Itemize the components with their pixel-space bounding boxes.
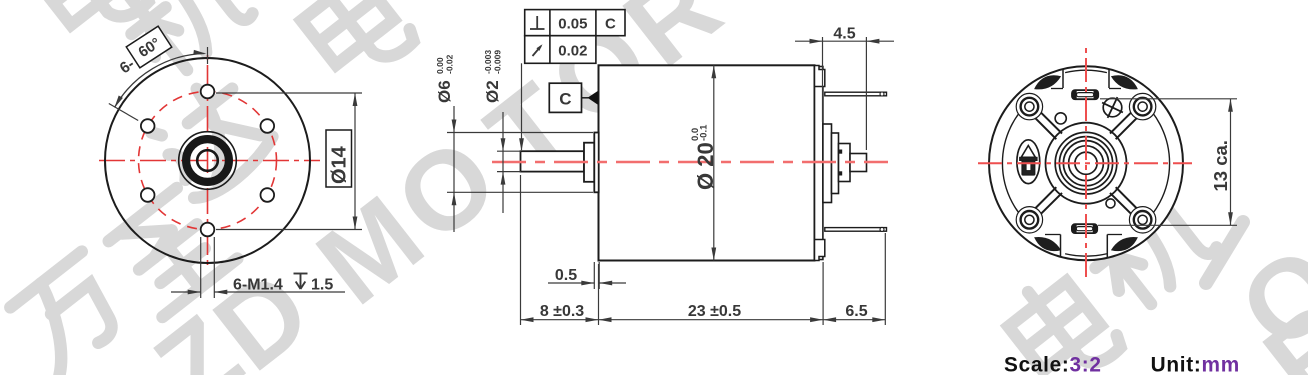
brush window oval [1017,140,1040,184]
back top crimp tab [815,66,825,87]
svg-text:23 ±0.5: 23 ±0.5 [688,303,741,320]
dimension 13 ca.: label [1210,140,1231,191]
bottom tab recess [1045,235,1122,258]
dimension diam6: label [435,54,455,103]
vent slot top [1072,90,1098,99]
left view shaft circle [197,150,218,171]
dimension diam6: dim line/arrows [452,106,457,232]
dimension 13 ca.: extension lines [1098,99,1237,226]
dimension diam20: label [690,124,718,190]
dimension 6-M1.4 depth 1.5: extension lines [201,237,215,298]
dimension Ø14: extension lines [216,93,362,230]
dimension Ø14: boxed label [326,130,352,187]
end cap step 2 [832,133,839,194]
dimension 6-60deg: arc with arrows [114,50,206,108]
svg-text:8 ±0.3: 8 ±0.3 [540,303,584,320]
dimension 0.5: dim line/arrows [548,281,626,286]
dimension 6-60deg: label 6- [117,56,138,78]
central bearing rings [1046,123,1127,204]
svg-text:13 ca.: 13 ca. [1210,140,1231,191]
left view outer circle (motor face) [105,58,310,263]
svg-text:-0.02: -0.02 [445,54,455,74]
left view mounting holes 6x [141,85,274,237]
svg-text:6-M1.4: 6-M1.4 [233,277,283,294]
small hole lower-right [1106,199,1115,208]
dimension 8 +-0.3: extension line [520,175,522,325]
datum C box and triangle [549,83,598,112]
front bearing boss [594,133,598,193]
svg-text:1.5: 1.5 [311,277,333,294]
svg-text:-0.1: -0.1 [699,124,710,141]
terminal pin top [825,92,887,96]
right view red centerlines [978,48,1192,277]
dimension diam2: extension lines [497,151,521,171]
right view outer circle [989,66,1183,260]
dimension 6.5: dim line/arrows [823,317,885,322]
feature control frame row1: perpendicularity 0.05 C [525,10,625,36]
right view inner rim circle (arcs) [1136,97,1169,230]
dimension 23 +-0.5: dim line/arrows [599,317,824,322]
svg-text:6.5: 6.5 [845,303,867,320]
dimension 8 +-0.3: dim line/arrows [521,317,599,322]
svg-text:C: C [605,15,616,32]
rear shaft stub [850,154,867,172]
front shaft [521,151,585,171]
vent slot bottom [1072,224,1097,233]
left view bearing ring (thick) [186,139,229,182]
dimension 6.5: extension line [884,233,886,325]
svg-text:Ø6: Ø6 [435,80,454,103]
rim crescent cutouts 4x [1034,75,1138,251]
dimension 23 +-0.5: extension lines [599,262,824,325]
back rim band [815,67,823,260]
shaft washer [584,143,594,182]
end cap step 1 [823,124,832,203]
svg-text:4.5: 4.5 [833,25,855,42]
dimension 6-M1.4 depth 1.5: dim lines with arrows [171,290,345,295]
svg-text:Ø 20: Ø 20 [693,142,718,190]
back bottom crimp tab [815,240,825,261]
svg-text:C: C [559,90,571,109]
terminal pin bottom [825,227,887,231]
svg-text:0.02: 0.02 [558,42,587,59]
svg-text:0.00: 0.00 [435,57,445,74]
dimension 13 ca.: dim line/arrows [1228,99,1233,226]
cross ribs 4x (double lines) [1035,112,1137,214]
dimension diam2: label [483,50,503,103]
small hole upper-left [1055,113,1066,124]
left view red centerlines [95,50,320,270]
red centerline (shaft axis) [492,161,888,163]
corner rivet holes 4x [1016,93,1156,233]
top tab recess [1051,69,1121,88]
scale and unit note [1004,354,1240,377]
left view center boss circle [179,132,237,190]
dimension 6-60deg: label 60 in box [126,26,171,68]
svg-text:Ø14: Ø14 [329,145,351,184]
dimension 0.5: extension lines [594,262,599,289]
dimension Ø14: dim line with arrows [353,93,358,230]
left view bolt circle (red dashed) [139,92,277,230]
dimension diam6: extension lines [447,133,593,193]
svg-text:Ø2: Ø2 [483,80,502,103]
svg-text:-0.003: -0.003 [483,50,493,74]
feature control frame row2: circular runout 0.02 [525,36,596,64]
rear bearing [839,144,851,182]
dimension diam2: dim line/arrows [501,112,506,213]
svg-text:-0.009: -0.009 [493,50,503,74]
dimension 6-60deg: extension ticks [109,47,208,121]
screw head with cross [1102,97,1123,118]
svg-text:0.5: 0.5 [555,267,577,284]
dimension 6-M1.4 depth 1.5: label [233,274,333,294]
dimension 4.5: dim line/arrows [795,39,894,44]
svg-text:0.05: 0.05 [558,15,587,32]
dimension 4.5: extension lines [823,37,867,150]
motor body (side view) [599,65,815,260]
dimension diam20: dim line/arrows [711,65,716,260]
FCF leader line to shaft [519,63,524,151]
